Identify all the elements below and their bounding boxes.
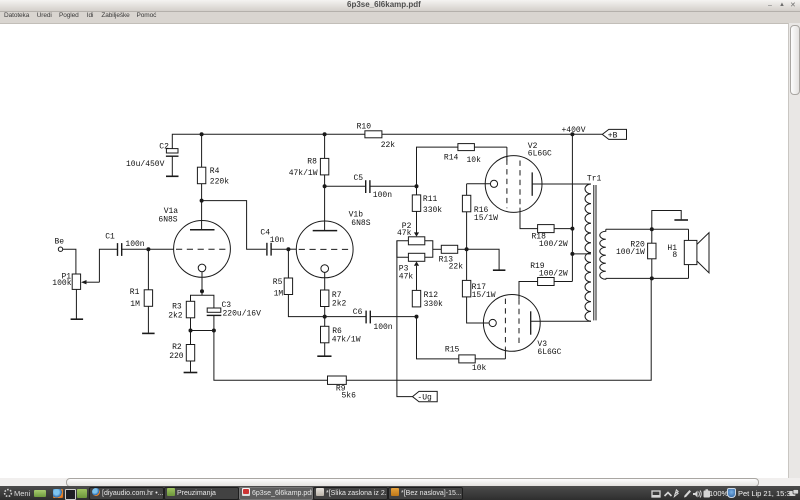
- svg-text:22k: 22k: [381, 141, 396, 150]
- svg-text:100/2W: 100/2W: [539, 270, 568, 279]
- tray window icon: [652, 491, 660, 497]
- svg-text:15/1W: 15/1W: [474, 214, 498, 223]
- svg-text:47k: 47k: [399, 273, 414, 282]
- svg-text:6N8S: 6N8S: [158, 216, 177, 225]
- svg-text:100n: 100n: [125, 240, 144, 249]
- transformer Tr1 primary: [585, 174, 602, 321]
- svg-text:10n: 10n: [270, 236, 285, 245]
- svg-text:47k/1W: 47k/1W: [332, 336, 361, 345]
- svg-text:+400V: +400V: [562, 126, 586, 135]
- node R3 bottom junction: [189, 329, 193, 333]
- wire V3 grid to R15: [504, 347, 506, 359]
- node Be input terminal: [55, 238, 65, 252]
- svg-text:+B: +B: [608, 131, 618, 140]
- resistor R20: [616, 229, 656, 278]
- capacitor C6: [325, 308, 417, 332]
- node R4 bottom junction: [200, 199, 204, 203]
- svg-text:6L6GC: 6L6GC: [537, 348, 561, 357]
- ground below R6: [317, 355, 331, 357]
- resistor R11: [412, 186, 442, 233]
- svg-text:R10: R10: [357, 122, 372, 131]
- potentiometer P1: [52, 273, 99, 290]
- svg-text:5k6: 5k6: [342, 391, 357, 400]
- svg-text:R11: R11: [423, 195, 438, 204]
- ground below R1: [142, 332, 155, 334]
- potentiometer P2: [397, 222, 433, 257]
- node C5/R11/R14 junction: [415, 184, 419, 188]
- resistor R1: [130, 249, 153, 333]
- wire cathode node to R3 and C3: [191, 291, 214, 308]
- svg-text:Be: Be: [55, 238, 65, 247]
- tray volume: [693, 491, 698, 498]
- svg-text:330k: 330k: [424, 300, 443, 309]
- ground at output: [674, 219, 688, 221]
- node R8/C5 junction: [323, 184, 327, 188]
- pentode V2 6L6GC: [467, 142, 552, 212]
- svg-text:100n: 100n: [373, 323, 392, 332]
- svg-text:100n: 100n: [373, 191, 392, 200]
- resistor R6: [321, 317, 361, 356]
- svg-text:10k: 10k: [467, 156, 482, 165]
- svg-text:R2: R2: [172, 343, 182, 352]
- resistor R5: [273, 249, 325, 316]
- svg-text:R4: R4: [210, 167, 220, 176]
- wire V3 screen to R19: [519, 282, 538, 300]
- resistor R19: [530, 262, 572, 285]
- svg-text:C6: C6: [353, 308, 363, 317]
- svg-text:47k/1W: 47k/1W: [289, 169, 318, 178]
- wire feedback bus: [214, 278, 651, 380]
- wire V2 plate to transformer: [532, 183, 591, 185]
- potentiometer P3: [399, 253, 425, 290]
- wire R4 junction to C4: [202, 201, 266, 250]
- pentode V3 6L6GC: [483, 295, 561, 358]
- wire V2 screen to R18: [520, 208, 538, 229]
- wire R3/C3 bottom link: [191, 330, 214, 332]
- svg-text:1M: 1M: [274, 290, 284, 299]
- svg-text:100k: 100k: [52, 279, 71, 288]
- svg-text:Tr1: Tr1: [587, 174, 602, 183]
- svg-text:220u/16V: 220u/16V: [223, 309, 262, 318]
- wire P1 wiper to C1: [99, 249, 117, 282]
- wire P1 to ground: [75, 289, 77, 318]
- svg-text:8: 8: [672, 251, 677, 260]
- node +400V junction: [570, 132, 574, 136]
- svg-text:2k2: 2k2: [332, 300, 347, 309]
- wire R15 branch: [417, 317, 459, 359]
- wire secondary bottom to speaker: [606, 277, 689, 279]
- svg-text:R8: R8: [307, 158, 317, 167]
- svg-text:330k: 330k: [423, 206, 442, 215]
- resistor R13: [433, 245, 467, 271]
- svg-text:1M: 1M: [130, 300, 140, 309]
- svg-text:R15: R15: [445, 346, 460, 355]
- ground below R2: [184, 372, 198, 374]
- triode V1b 6N8S: [296, 211, 370, 291]
- capacitor C5: [325, 174, 417, 200]
- resistor R14: [444, 144, 507, 165]
- svg-text:100/2W: 100/2W: [539, 240, 568, 249]
- wire junction to ground: [467, 249, 500, 269]
- resistor R12: [412, 290, 443, 309]
- ground at R16/R17 node: [493, 269, 506, 271]
- wire Be to P1: [63, 249, 76, 274]
- svg-text:C5: C5: [354, 174, 364, 183]
- node +B flag: [602, 129, 626, 140]
- resistor R2: [169, 331, 195, 372]
- node R7/R5/R6/C6 junction: [323, 315, 327, 319]
- svg-text:R14: R14: [444, 154, 459, 163]
- wire B+ vertical: [571, 134, 573, 281]
- triode V1a 6N8S: [158, 207, 230, 291]
- node transformer centre tap: [570, 252, 591, 256]
- resistor R15: [445, 346, 506, 374]
- resistor R3: [168, 301, 195, 330]
- wire -Ug branch: [397, 241, 413, 397]
- svg-text:15/1W: 15/1W: [472, 291, 496, 300]
- wire junction to V1b grid: [288, 248, 296, 250]
- svg-text:10u/450V: 10u/450V: [126, 160, 165, 169]
- node +400V label: [562, 126, 586, 135]
- speaker H1: [667, 229, 709, 278]
- svg-text:C2: C2: [159, 142, 169, 151]
- node C4/R5 grid junction: [286, 247, 290, 251]
- svg-text:100/1W: 100/1W: [616, 248, 645, 257]
- resistor R4: [197, 134, 229, 200]
- svg-text:47k: 47k: [397, 229, 412, 238]
- svg-text:220k: 220k: [210, 178, 229, 187]
- tray pencil: [684, 490, 691, 498]
- transformer core: [594, 185, 596, 320]
- resistor R18: [532, 225, 573, 249]
- svg-text:22k: 22k: [449, 263, 464, 272]
- wire secondary top to speaker: [606, 228, 689, 230]
- capacitor C4: [260, 229, 288, 256]
- tray battery: [704, 491, 711, 498]
- svg-text:10k: 10k: [472, 364, 487, 373]
- ground below C2: [166, 175, 179, 177]
- svg-text:6N8S: 6N8S: [351, 219, 370, 228]
- resistor R7: [321, 290, 347, 317]
- svg-text:220: 220: [169, 352, 184, 361]
- node C6/R12 junction: [415, 315, 419, 319]
- wire top supply rail: [172, 134, 602, 148]
- wire V1a plate to R4: [201, 201, 203, 230]
- resistor R10: [357, 122, 396, 150]
- node R8 top junction: [323, 132, 327, 136]
- resistor R16: [462, 184, 498, 250]
- node C1/R1 grid junction: [146, 247, 150, 251]
- capacitor C2: [126, 142, 179, 175]
- svg-text:R12: R12: [424, 291, 439, 300]
- capacitor C3: [207, 301, 261, 331]
- wire to output ground: [652, 211, 681, 230]
- transformer Tr1 secondary: [600, 229, 606, 279]
- ground below P1: [71, 318, 84, 320]
- svg-text:C4: C4: [260, 229, 270, 238]
- node V1a cathode junction: [200, 289, 204, 293]
- node secondary top junction: [650, 227, 654, 231]
- svg-text:C1: C1: [105, 233, 115, 242]
- node C3 bottom junction: [212, 329, 216, 333]
- node secondary bottom junction: [650, 276, 654, 280]
- wire junction to V1a grid: [148, 248, 174, 250]
- resistor R9: [328, 376, 357, 400]
- wire R14 branch: [417, 147, 458, 186]
- tray bluetooth: [674, 490, 678, 497]
- wire V3 plate to transformer: [531, 320, 591, 322]
- resistor R8: [289, 134, 329, 230]
- resistor R17: [462, 249, 495, 323]
- svg-text:R5: R5: [273, 278, 283, 287]
- node R4 top junction: [200, 132, 204, 136]
- svg-text:-Ug: -Ug: [417, 394, 432, 403]
- node -Ug flag: [413, 391, 438, 402]
- svg-text:6L6GC: 6L6GC: [528, 150, 552, 159]
- tray chevron: [665, 493, 672, 497]
- capacitor C1: [105, 233, 148, 256]
- node R18/B+ junction: [570, 227, 574, 231]
- svg-text:2k2: 2k2: [168, 311, 183, 320]
- node R13/R16/R17 junction: [465, 247, 469, 251]
- svg-text:R1: R1: [130, 288, 140, 297]
